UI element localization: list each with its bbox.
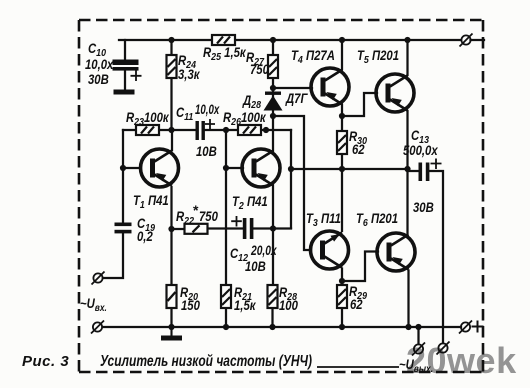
plus sign at supply terminal: [472, 321, 484, 333]
T5 emitter - T6 collector column: [406, 111, 408, 234]
resistor R26: [238, 125, 261, 135]
svg-text:3,3к: 3,3к: [178, 67, 200, 82]
capacitor C11: [196, 119, 216, 140]
R21 bottom lead: [225, 308, 227, 327]
R22 left lead: [172, 228, 185, 230]
C10 bottom lead: [124, 70, 126, 90]
T1 emitter / R20 column: [170, 187, 172, 285]
resistor R27: [268, 55, 278, 78]
output stub: [417, 327, 419, 344]
transistor T5 П201: [376, 74, 414, 112]
top supply rail: [119, 39, 461, 41]
R30 bottom lead: [341, 154, 343, 169]
R20 bottom lead: [170, 308, 172, 327]
T2 base lead: [226, 167, 243, 169]
T2 collector to T3 base wire: [273, 116, 311, 250]
bottom common rail: [103, 326, 461, 328]
T4 base wire: [273, 87, 312, 89]
mid node line: [291, 168, 408, 170]
R23 row wire: [123, 129, 196, 131]
input wire: [103, 234, 123, 279]
svg-text:1,5к: 1,5к: [234, 298, 256, 313]
capacitor C13: [419, 159, 442, 182]
T2 emitter / R28 column: [272, 186, 274, 286]
svg-text:Рис. 3: Рис. 3: [22, 353, 69, 370]
C11-R26 row wire: [204, 129, 291, 131]
svg-text:750: 750: [199, 209, 218, 224]
diode D28 (Д7Г): [264, 92, 283, 111]
T1 base lead: [123, 167, 141, 169]
transistor T1 П41: [141, 149, 179, 187]
resistor R29: [337, 285, 347, 308]
R29 bottom lead: [341, 308, 343, 327]
terminal supply minus: [460, 34, 473, 47]
caption rule: [317, 366, 399, 368]
resistor R25: [212, 35, 235, 45]
svg-text:30В: 30В: [88, 72, 109, 87]
svg-text:100: 100: [279, 298, 298, 313]
svg-text:Д7Г: Д7Г: [285, 91, 309, 106]
svg-text:750: 750: [250, 62, 269, 77]
svg-text:500,0х: 500,0х: [403, 143, 439, 158]
svg-text:*: *: [193, 202, 199, 218]
ground bar below C10: [114, 90, 135, 95]
frame dashed border: [79, 20, 483, 372]
T5 base wire: [342, 93, 377, 116]
T6 base wire: [342, 252, 378, 282]
capacitor C19: [115, 223, 132, 234]
terminal supply plus: [459, 321, 472, 334]
minus terminal stub: [471, 39, 485, 41]
resistor R20: [167, 285, 177, 308]
svg-text:62: 62: [352, 142, 365, 157]
T2 base / R21 column: [225, 130, 227, 285]
T5 collector lead: [406, 40, 408, 75]
R22-C12 link: [208, 227, 243, 229]
resistor R23: [136, 125, 159, 135]
R30 top lead: [341, 116, 343, 131]
transistor T4 П27А: [311, 68, 349, 106]
R27-D28 column / T2 collector: [272, 40, 274, 151]
terminal output 1: [412, 343, 425, 356]
T3 emitter lead up: [341, 169, 343, 231]
resistor R30: [337, 131, 347, 154]
terminal input lower: [91, 321, 104, 334]
svg-text:10В: 10В: [196, 144, 217, 159]
C12 right lead: [254, 227, 292, 229]
svg-text:Усилитель низкой частоты (УНЧ): Усилитель низкой частоты (УНЧ): [100, 353, 312, 370]
resistor R22: [185, 224, 208, 234]
svg-text:20,0х: 20,0х: [250, 243, 278, 259]
transistor T2 П41: [242, 149, 280, 187]
feedback vertical: [290, 130, 292, 228]
ground under R20: [161, 327, 182, 341]
svg-text:10,0х: 10,0х: [85, 57, 114, 72]
resistor R28: [268, 285, 278, 308]
svg-text:10В: 10В: [245, 259, 266, 274]
resistor R24: [167, 55, 177, 78]
C13 output wire: [430, 171, 444, 343]
transistor T6 П201: [377, 233, 415, 271]
capacitor C12: [231, 216, 253, 239]
svg-text:30В: 30В: [413, 200, 434, 215]
T4 collector lead: [341, 40, 343, 69]
T4 emitter lead: [341, 105, 343, 116]
svg-text:10,0х: 10,0х: [195, 103, 220, 118]
R28 bottom lead: [271, 308, 273, 327]
terminal output 2: [437, 342, 450, 355]
R24 column / T1 collector node: [170, 40, 172, 130]
svg-text:150: 150: [181, 298, 200, 313]
T6 emitter lead: [407, 271, 409, 328]
transistor T3 П11: [311, 231, 349, 269]
resistor R21: [221, 285, 231, 308]
svg-text:0,2: 0,2: [137, 229, 153, 244]
T1 base column: [122, 130, 124, 223]
T1 collector lead: [171, 130, 173, 150]
svg-text:62: 62: [350, 297, 363, 312]
C13 left lead: [408, 170, 420, 172]
C10 top lead: [124, 40, 126, 60]
T3 collector lead down: [341, 269, 343, 286]
capacitor C10: [113, 60, 142, 82]
terminal input upper: [92, 272, 105, 285]
